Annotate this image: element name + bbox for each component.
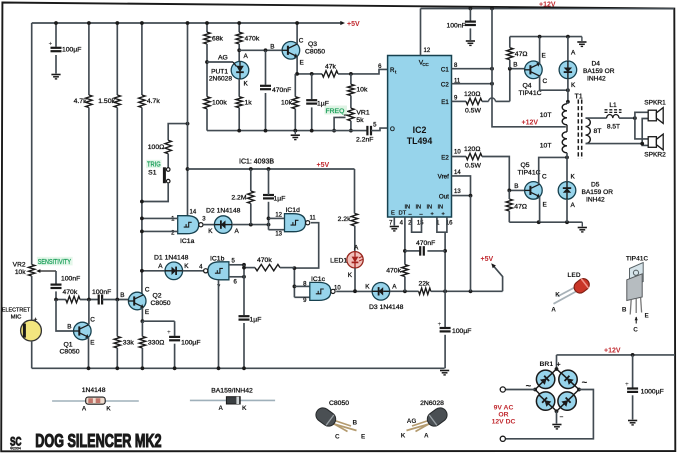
label 47k (325, 64, 337, 71)
label 0.5W (E1) (465, 108, 481, 115)
label IC1d (286, 207, 301, 214)
ground Q4 rail (577, 37, 586, 47)
svg-text:T1: T1 (575, 94, 583, 101)
svg-text:K: K (348, 272, 353, 279)
wire 1.50k top (115, 21, 119, 95)
bridge diode BR1-4 (554, 388, 580, 414)
wire secondary bottom (586, 143, 643, 145)
label Q1 C8050 (60, 342, 80, 356)
label legend 1N4148 K (106, 406, 111, 413)
svg-text:+: + (442, 212, 445, 218)
svg-text:AG: AG (218, 55, 228, 62)
wire 100nF to Q2 base (102, 298, 128, 302)
wire 10k (Q3) to rail (294, 109, 296, 131)
label 100nF (couple) (92, 289, 111, 296)
svg-text:C8050: C8050 (305, 49, 325, 56)
svg-text:Q3: Q3 (308, 41, 317, 48)
label legend C8050 C (335, 434, 340, 441)
wire center tap join (566, 125, 568, 132)
svg-text:C: C (145, 287, 150, 294)
label 1uF (IC1b) (250, 317, 262, 324)
svg-text:E: E (645, 313, 650, 320)
wire IC1d out loop (294, 223, 318, 268)
label 1k (245, 100, 253, 107)
diode D4 BA159 (559, 61, 577, 79)
capacitor 470nF (IC2) (420, 246, 424, 256)
label 470nF (osc) (272, 87, 291, 94)
svg-text:K: K (365, 283, 370, 290)
label 470k (in) (63, 289, 78, 296)
wire pin7 E gnd (393, 217, 395, 226)
svg-text:K: K (244, 81, 249, 88)
label 120ohm (E1) (464, 91, 480, 98)
diode D5 BA159 (558, 182, 576, 200)
label IC1c (311, 276, 326, 283)
label pin15 (417, 221, 424, 227)
svg-text:+12V: +12V (604, 348, 621, 355)
svg-text:C: C (90, 317, 95, 324)
wire 2.2M bottom (250, 204, 252, 225)
svg-text:D3 1N4148: D3 1N4148 (369, 304, 404, 311)
wire Q3 collector (295, 21, 299, 44)
label legend 2N6028 A (424, 433, 429, 440)
wire 4.7k-a top (87, 21, 91, 95)
svg-text:11: 11 (310, 216, 317, 222)
svg-text:13: 13 (275, 231, 282, 237)
potentiometer VR1 5k (339, 108, 354, 121)
label K D3 (365, 283, 370, 290)
resistor 100ohm (165, 140, 171, 153)
svg-text:100µF: 100µF (452, 328, 471, 335)
svg-text:K: K (184, 263, 189, 270)
wire 4.7k-b top (140, 21, 144, 95)
svg-text:B: B (513, 62, 517, 69)
wire VR2 to mic (31, 276, 33, 320)
svg-text:LED: LED (567, 272, 580, 279)
svg-text:470nF: 470nF (272, 87, 291, 94)
capacitor 470nF (osc) (260, 86, 271, 89)
nand gate IC1d (285, 214, 310, 232)
wire 1000uF to gnd (632, 395, 634, 419)
svg-text:100µF: 100µF (62, 47, 81, 54)
svg-text:47k: 47k (325, 64, 337, 71)
ground BR1 (552, 425, 561, 429)
legend TIP41C package (627, 263, 643, 315)
wire primary bottom lead (566, 153, 568, 158)
label C Q4 (543, 78, 548, 85)
resistor 47ohm (Q4) (507, 48, 513, 60)
PUT transistor PUT1 2N6028 (231, 61, 249, 79)
svg-text:Out: Out (439, 193, 449, 200)
svg-text:K: K (242, 405, 247, 412)
wire D3 to 22k (390, 289, 419, 293)
svg-text:K: K (555, 292, 560, 299)
label D4 BA159 OR INH42 (583, 61, 615, 83)
svg-text:A: A (551, 307, 556, 314)
resistor 470k (PUT anode) (236, 32, 242, 44)
capacitor 100uF (top-left) (49, 41, 62, 52)
label 470k (PUT anode) (245, 36, 260, 43)
label A D3 (392, 283, 397, 290)
label B Q5 (514, 183, 518, 190)
svg-text:Q5: Q5 (520, 162, 529, 169)
label +5V (IC1 rail) (317, 162, 330, 169)
label A D1 (158, 263, 163, 270)
label K LED1 (348, 272, 353, 279)
label IC1: 4093B (239, 159, 274, 166)
label SPKR1 (644, 100, 666, 107)
label IN signs (409, 212, 445, 218)
title DOG SILENCER MK2 (35, 432, 162, 452)
label legend LED A (551, 307, 556, 314)
wire pin4 DT (403, 217, 407, 265)
wire Q5 emitter down (539, 197, 541, 223)
label legend BA159/INH42 (211, 388, 253, 395)
wire pin9 E1a (452, 100, 467, 102)
wire VR2 wiper cap (55, 271, 57, 284)
label pin11 IC1d (310, 216, 317, 222)
wire 33k top (116, 300, 118, 337)
label pin11 (454, 78, 461, 84)
wire AG gate (207, 61, 233, 63)
svg-text:C: C (299, 38, 304, 45)
svg-text:BA159/INH42: BA159/INH42 (211, 388, 253, 395)
svg-text:100µF: 100µF (181, 340, 200, 347)
wire IC1c in8 (294, 285, 309, 287)
resistor 120ohm (E1) (466, 98, 482, 104)
label PUT1 2N6028 (209, 69, 232, 83)
wire Q5 gnd rail (509, 220, 582, 224)
wire 100k to rail (206, 109, 208, 131)
svg-text:C2: C2 (441, 82, 449, 89)
label AG (218, 55, 228, 62)
wire primary top lead (566, 102, 569, 104)
svg-text:BA159 OR: BA159 OR (582, 189, 614, 196)
label pin9 (454, 96, 458, 102)
label pin13 (454, 189, 461, 195)
wire 100nF (12V) top (469, 9, 471, 21)
label 100nF (VR2) (61, 276, 80, 283)
svg-text:C: C (633, 327, 638, 334)
label 100k (212, 100, 227, 107)
wire pins 2-15 loop (412, 217, 422, 232)
label A D4 (571, 50, 576, 57)
label C2 pin (441, 82, 449, 89)
junction dots BR1 (533, 367, 581, 413)
label 100ohm (148, 144, 164, 151)
label legend BA159 A (218, 405, 223, 412)
wire 1.50k to Q2 base node (116, 108, 118, 300)
label 47ohm (Q5) (514, 204, 527, 211)
svg-text:IC1b: IC1b (210, 255, 225, 262)
svg-text:10: 10 (334, 285, 341, 291)
resistor 68k (204, 32, 210, 44)
wire 470k to PUT1 (237, 44, 241, 62)
capacitor 100nF (12V) (465, 22, 476, 25)
label IC2 TL494 (407, 125, 433, 146)
label E Q1 (90, 340, 94, 347)
svg-text:470nF: 470nF (416, 240, 435, 247)
wire +5V to 2.2k (354, 169, 356, 213)
wire 1uF (IC1b) to bus (242, 323, 246, 370)
wire 470k in to node (80, 298, 99, 302)
label T1 (575, 94, 583, 101)
wire D5 cathode (566, 157, 568, 181)
svg-text:SPKR2: SPKR2 (644, 152, 666, 159)
legend 2N6028 package (407, 405, 450, 431)
wire 2.2k to LED1 (354, 226, 356, 252)
transformer T1 core (578, 100, 581, 160)
svg-text:B: B (270, 44, 274, 51)
svg-text:12: 12 (424, 48, 431, 54)
label 1uF (IC1d) (274, 196, 286, 203)
svg-text:TRIG: TRIG (147, 161, 161, 169)
label pin2 IC1a (171, 230, 175, 236)
label IC1a (180, 238, 195, 245)
svg-text:E: E (542, 53, 546, 60)
ground 1000uF (628, 421, 637, 425)
label pin1 (436, 221, 440, 227)
label C Q5 (542, 174, 547, 181)
label B Q2 (120, 292, 124, 299)
wire 470nF right (IC2) (427, 250, 445, 252)
wire spkr1 top (635, 112, 648, 118)
label 1000uF (641, 389, 664, 396)
label 9V AC OR 12V DC (492, 405, 516, 426)
label legend TIP41C (626, 256, 649, 263)
svg-text:1µF: 1µF (250, 317, 262, 324)
svg-text:C: C (543, 78, 548, 85)
ground rail symbol (291, 131, 300, 140)
label +12V (top) (539, 2, 556, 9)
label pin8 IC1c (303, 281, 307, 287)
resistor 470k (in) (66, 296, 80, 302)
svg-text:2N6028: 2N6028 (420, 400, 444, 407)
svg-text:TL494: TL494 (407, 136, 433, 146)
wire 4.7k-b to Q2 collector (141, 108, 143, 294)
diode D3 1N4148 (372, 283, 390, 301)
wire Q5 collector up (539, 156, 569, 184)
wire 100uF to gnd (55, 55, 57, 74)
label 8.5T (607, 124, 620, 131)
label A D5 (571, 202, 576, 209)
svg-text:B: B (67, 324, 71, 331)
svg-text:D1 1N4148: D1 1N4148 (154, 254, 189, 261)
svg-text:13: 13 (454, 189, 461, 195)
svg-text:1.50k: 1.50k (98, 98, 115, 105)
svg-text:4.7k: 4.7k (147, 98, 160, 105)
wire 10k (Q3) top (294, 74, 296, 97)
label legend LED K (555, 292, 560, 299)
label 2.2k (338, 216, 351, 223)
label K D2 (208, 228, 213, 235)
inductor L1 8.5T (605, 110, 622, 118)
svg-text:2.2k: 2.2k (338, 216, 351, 223)
wire 1k to rail (238, 108, 240, 131)
label - BR1 (560, 414, 564, 421)
svg-text:1µF: 1µF (274, 196, 286, 203)
label 10T (top) (540, 112, 552, 119)
label Q5 TIP41C (517, 162, 540, 177)
wire pin10 E2a (452, 156, 467, 158)
svg-text:C: C (542, 174, 547, 181)
wire 330ohm top (141, 321, 143, 336)
label pin4 (400, 221, 404, 227)
label Rt pin (390, 67, 397, 75)
label 4.7k (b) (147, 98, 160, 105)
wire pin13 Out (452, 194, 473, 198)
svg-text:©2004: ©2004 (10, 447, 21, 451)
label legend C8050 E (361, 434, 366, 441)
label +12V (bottom) (604, 348, 621, 355)
label Q4 TIP41C (518, 83, 541, 98)
resistor 2.2k (351, 213, 357, 225)
bridge diode BR1-2 (555, 366, 581, 392)
wire 470nF branch (265, 50, 267, 85)
svg-text:A: A (235, 228, 240, 235)
wire D4 cathode (566, 79, 570, 104)
wire 100nF to base node (55, 291, 57, 299)
wire D5 anode (566, 199, 568, 222)
wire IC1c in9 (294, 296, 309, 298)
svg-text:IC1: 4093B: IC1: 4093B (239, 159, 274, 166)
wire 100uF C top (54, 21, 58, 47)
label pin16b (446, 221, 453, 227)
wire +5V IC1 rail (188, 167, 355, 171)
transistor Q3 C8050 (282, 42, 300, 60)
svg-text:33k: 33k (123, 340, 135, 347)
label 470k (fb) (257, 257, 272, 264)
label 4.7k (a) (74, 98, 87, 105)
label + BR1 (557, 362, 561, 369)
svg-text:A: A (82, 406, 87, 413)
wire E1 hop (482, 98, 510, 101)
svg-text:D5: D5 (591, 182, 600, 189)
label C Q2 (145, 287, 150, 294)
wire Q4 collector down (540, 76, 570, 92)
label legend C8050 B (353, 420, 358, 427)
wire 1000uF top (632, 355, 634, 388)
svg-text:–: – (560, 414, 564, 421)
resistor 2.2M (248, 191, 254, 204)
label pin7 IC1b (217, 285, 221, 291)
wire D4 anode (567, 37, 569, 61)
label 100uF (Q2) (181, 340, 200, 347)
svg-text:68k: 68k (212, 36, 224, 43)
label D5 BA159 OR INH42 (582, 182, 614, 204)
svg-text:22k: 22k (419, 281, 431, 288)
wire IC1d in12 (269, 217, 285, 219)
wire Q2 emitter (141, 308, 145, 323)
wire 100uF (Q2) to bus (173, 344, 177, 370)
svg-text:E: E (145, 309, 149, 316)
svg-text:AG: AG (407, 418, 417, 425)
IC IC2 TL494 body (388, 56, 452, 218)
label 330ohm (148, 340, 164, 347)
nand gate IC1b (204, 262, 229, 280)
svg-text:CC: CC (422, 62, 428, 67)
label 10T (bottom) (540, 143, 552, 150)
svg-text:10: 10 (454, 150, 461, 156)
label B Q1 (67, 324, 71, 331)
label D3 1N4148 (369, 304, 404, 311)
label legend TIP41C B (622, 307, 627, 314)
label IN row (405, 205, 444, 211)
svg-text:MIC: MIC (11, 315, 23, 321)
label pin9 IC1c (303, 298, 307, 304)
label 1.50k (98, 98, 115, 105)
wire 1uF (osc) top (311, 74, 313, 99)
svg-text:~: ~ (582, 378, 588, 389)
svg-text:+: + (49, 41, 53, 48)
svg-text:FREQ: FREQ (326, 108, 345, 115)
wire 47ohm (Q4) ends (509, 37, 511, 69)
wire Q4 gnd rail (510, 35, 582, 39)
wire +12V top rail (421, 7, 675, 11)
svg-text:S1: S1 (148, 170, 157, 177)
electret mic MIC1 (21, 317, 42, 342)
svg-text:4.7k: 4.7k (74, 98, 87, 105)
wire 470k fb right (280, 267, 294, 269)
svg-text:C1: C1 (441, 67, 449, 74)
label legend BA159 K (242, 405, 247, 412)
svg-text:2.2nF: 2.2nF (356, 137, 373, 144)
wire emitter row (295, 72, 322, 76)
svg-text:IN: IN (427, 205, 433, 211)
svg-text:B: B (514, 183, 518, 190)
svg-text:2.2M: 2.2M (231, 195, 246, 202)
svg-text:~: ~ (526, 381, 532, 392)
svg-text:IC1a: IC1a (180, 238, 195, 245)
label 470nF (IC2) (416, 240, 435, 247)
svg-text:+: + (34, 317, 38, 324)
svg-text:+: + (167, 329, 171, 336)
label Vcc (419, 60, 429, 68)
svg-text:C8050: C8050 (151, 300, 171, 307)
capacitor 1000uF (625, 381, 638, 392)
svg-text:B: B (120, 292, 124, 299)
wire in-tie vertical (243, 265, 245, 315)
wire 100uF (out) to bus (444, 335, 446, 369)
svg-text:OR: OR (498, 412, 508, 419)
svg-text:DOG SILENCER MK2: DOG SILENCER MK2 (35, 432, 162, 452)
label legend 2N6028 (420, 400, 444, 407)
svg-text:10T: 10T (540, 143, 552, 150)
wire D1 to IC1b out (183, 270, 205, 272)
wire 1uF to pins (267, 202, 271, 230)
diode D2 1N4148 (214, 216, 232, 234)
svg-text:B: B (353, 420, 358, 427)
label 2.2nF (356, 137, 373, 144)
resistor 100k (204, 97, 210, 109)
wire 22k to +5V arrow (431, 289, 503, 293)
capacitor 1uF (IC1d) (263, 195, 274, 198)
label TRIG (146, 160, 162, 169)
label D1 1N4148 (154, 254, 189, 261)
ground bottom bus end (440, 371, 449, 375)
ground 100uF (51, 75, 60, 79)
wire 2.2nF to pin5 (371, 128, 388, 131)
wire DT to row (404, 277, 406, 292)
wire mic to bottom bus (31, 341, 33, 368)
label E Q3 (300, 60, 304, 67)
bridge diode BR1-1 (533, 366, 559, 392)
wire trig branch top (168, 122, 189, 141)
wire IC1b pin7 gnd (217, 280, 221, 370)
legend C8050 package (313, 405, 356, 431)
resistor 10k (Q3) (292, 97, 298, 109)
wire 100uF (Q2) top (174, 321, 176, 336)
